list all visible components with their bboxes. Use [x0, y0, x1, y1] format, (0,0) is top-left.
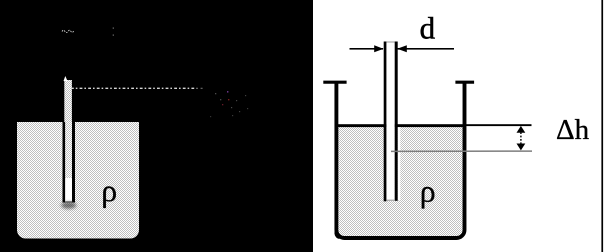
svg-text:d: d — [420, 11, 436, 46]
svg-text:ρ: ρ — [101, 172, 117, 208]
svg-text:Δh: Δh — [556, 114, 590, 146]
svg-text:ρ: ρ — [420, 173, 436, 209]
